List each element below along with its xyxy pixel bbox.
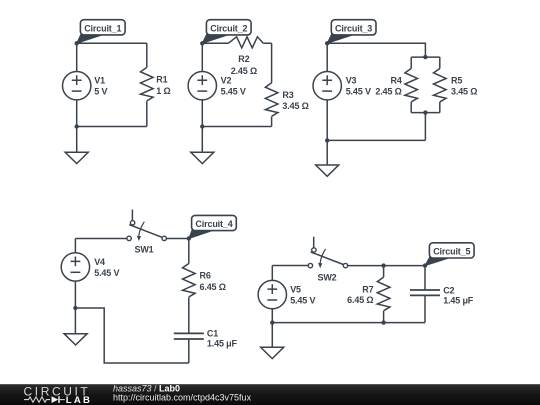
svg-text:Circuit_3: Circuit_3 (335, 23, 372, 33)
node A1 junction (75, 41, 79, 45)
svg-text:Circuit_2: Circuit_2 (210, 23, 247, 33)
junction dot circuit 2 bottom (200, 124, 204, 128)
ground circuit 1 (65, 127, 88, 164)
svg-text:5.45 V: 5.45 V (290, 296, 315, 306)
switch SW2 (308, 237, 348, 283)
footer title hassas73 / Lab0 (113, 384, 180, 394)
resistor R3 (265, 43, 308, 126)
ground circuit 2 (191, 127, 214, 164)
resistor R4 (375, 57, 417, 113)
svg-text:http://circuitlab.com/ctpd4c3v: http://circuitlab.com/ctpd4c3v75fux (113, 392, 252, 402)
wire bottom rail circuit 3 (327, 139, 425, 141)
junction dot circuit 1 bottom (75, 124, 79, 128)
switch SW1 (127, 210, 166, 255)
svg-text:5.45 V: 5.45 V (346, 87, 371, 97)
svg-text:6.45 Ω: 6.45 Ω (347, 295, 373, 305)
logo CIRCUIT wordmark (24, 385, 91, 399)
svg-text:5.45 V: 5.45 V (221, 87, 246, 97)
capacitor C2 (410, 266, 474, 323)
svg-text:R4: R4 (390, 75, 401, 85)
footer url (113, 392, 252, 402)
wire V5 to switch (272, 265, 308, 267)
wire top rail circuit 1 (77, 42, 147, 44)
wire switch to R7 node (348, 265, 425, 267)
node A3 junction (325, 41, 329, 45)
svg-text:Circuit_4: Circuit_4 (195, 219, 232, 229)
svg-text:Circuit_1: Circuit_1 (84, 23, 121, 33)
junction dot R7 top (381, 263, 385, 267)
logo resistor-diode glyph (24, 396, 65, 403)
junction dot parallel bottom (423, 110, 427, 114)
label callout Circuit_4 (189, 215, 237, 238)
node A2 junction (200, 41, 204, 45)
ground circuit 3 (316, 140, 339, 176)
svg-text:3.45 Ω: 3.45 Ω (282, 101, 308, 111)
svg-text:V2: V2 (221, 76, 232, 86)
wire parallel to bottom rail (424, 113, 426, 141)
svg-text:LAB: LAB (66, 395, 92, 405)
svg-text:C2: C2 (443, 285, 454, 295)
svg-text:V3: V3 (346, 76, 357, 86)
ground circuit 4 (64, 308, 87, 345)
svg-text:C1: C1 (207, 328, 218, 338)
junction dot R7 bottom (381, 320, 385, 324)
svg-text:R5: R5 (451, 75, 462, 85)
svg-text:1.45 μF: 1.45 μF (207, 339, 238, 349)
voltage source V3 (313, 43, 371, 140)
footer bar (0, 384, 540, 405)
capacitor C1 (174, 328, 238, 363)
logo LAB wordmark (66, 395, 92, 405)
svg-text:R3: R3 (282, 90, 293, 100)
junction dot C2 top (423, 263, 427, 267)
voltage source V1 (62, 43, 107, 126)
svg-text:1.45 μF: 1.45 μF (443, 295, 474, 305)
resistor R1 (141, 43, 171, 126)
voltage source V4 (61, 239, 119, 309)
svg-text:Circuit_5: Circuit_5 (433, 246, 470, 256)
wire switch to node (166, 238, 188, 240)
wire bottom return circuit 4 (75, 308, 188, 363)
junction dot V4 bottom (73, 306, 77, 310)
resistor R6 (183, 239, 226, 334)
svg-text:SW1: SW1 (134, 245, 153, 255)
junction dot V5 bottom (270, 320, 274, 324)
svg-text:5.45 V: 5.45 V (94, 268, 119, 278)
wire parallel top rail (411, 56, 440, 58)
svg-text:R6: R6 (200, 270, 211, 280)
voltage source V5 (258, 266, 315, 323)
wire V4 to switch (75, 238, 127, 240)
junction dot circuit 3 bottom (325, 138, 329, 142)
svg-text:R7: R7 (362, 284, 373, 294)
resistor R5 (434, 57, 478, 113)
resistor R2 (horizontal) (202, 37, 271, 76)
svg-text:1 Ω: 1 Ω (156, 86, 170, 96)
svg-text:2.45 Ω: 2.45 Ω (375, 86, 401, 96)
wire bottom rail circuit 2 (202, 126, 271, 128)
svg-text:2.45 Ω: 2.45 Ω (231, 66, 257, 76)
junction dot parallel top (423, 55, 427, 59)
svg-text:V4: V4 (94, 257, 105, 267)
svg-text:SW2: SW2 (317, 273, 336, 283)
label callout Circuit_2 (202, 20, 251, 44)
ground circuit 5 (261, 323, 284, 359)
svg-text:3.45 Ω: 3.45 Ω (451, 86, 477, 96)
label callout Circuit_1 (77, 20, 125, 44)
label callout Circuit_3 (327, 20, 376, 44)
wire parallel bottom rail (411, 112, 440, 114)
svg-text:5 V: 5 V (94, 87, 107, 97)
wire bottom rail circuit 1 (77, 126, 147, 128)
svg-text:V1: V1 (94, 76, 105, 86)
resistor R7 (347, 266, 390, 323)
svg-text:R1: R1 (156, 75, 167, 85)
svg-text:R2: R2 (238, 54, 249, 64)
svg-text:V5: V5 (290, 285, 301, 295)
svg-text:6.45 Ω: 6.45 Ω (200, 282, 226, 292)
voltage source V2 (188, 43, 246, 126)
wire bottom rail circuit 5 (272, 322, 425, 324)
label callout Circuit_5 (425, 243, 474, 266)
node B junction (187, 236, 191, 240)
wire top rail circuit 3 (327, 43, 425, 57)
